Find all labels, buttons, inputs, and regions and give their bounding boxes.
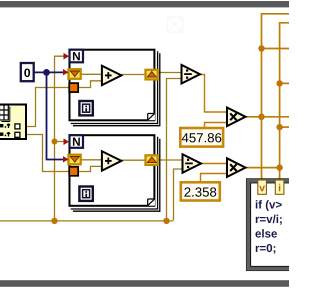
formula node code text <box>255 200 281 254</box>
multiply function U6 <box>227 158 246 177</box>
top window border bar <box>0 1 289 7</box>
wire: net v branch stub to right edge <box>262 48 290 50</box>
add function U2 (loop2) <box>102 151 122 170</box>
wire: divide U4 output to multiply U6 upper input <box>201 163 228 165</box>
for loop 2 frame (stacked pages with folded corner) <box>70 135 160 211</box>
loop1 input tunnel <box>69 83 78 92</box>
coercion dot at SR1 <box>63 69 69 75</box>
junction: blue wire junction at constant 0 branch <box>43 69 50 76</box>
wire: constant 2.358 to multiply U6 lower input <box>201 174 228 183</box>
numeric constant 2.358 <box>181 182 220 200</box>
wire: shift register SR1 output to divide U3 upper input <box>158 72 182 74</box>
junction: net v upper branch <box>258 45 264 51</box>
wire: add U1 output to right shift register SR1b <box>121 74 146 76</box>
wire: SR2 to add U2 upper input <box>81 159 102 161</box>
wire: count rail along bottom (net N) <box>0 220 174 222</box>
wire: rail riser to divide U3 lower input <box>167 79 182 221</box>
wire: SR1 to add U1 upper input <box>81 73 102 75</box>
junction: net i middle branch <box>276 124 282 130</box>
shift register SR1 (left, loop1) <box>69 69 81 79</box>
subVI icon (data source, cut off at left edge) <box>0 105 26 140</box>
numeric constant 457.86 <box>180 128 223 147</box>
multiply function U5 <box>227 108 246 127</box>
wire: net v riser with top branch to right edge <box>262 14 290 117</box>
coercion dot at loop2 N <box>64 138 70 145</box>
wire: rail riser to N terminals of both loops <box>55 56 65 221</box>
wire: constant 0 to shift register SR1 (integer, blue) <box>34 71 69 73</box>
junction: net i upper branch <box>276 80 282 86</box>
bottom window border bar <box>0 280 289 287</box>
junction: net v at multiply U5 output <box>258 114 264 120</box>
shift register SR1b (right, loop1) <box>146 70 158 80</box>
wire: multiply U6 output (net i) <box>245 167 279 169</box>
loop2 count terminal N <box>70 135 84 148</box>
coercion dot at SR2 <box>63 156 69 162</box>
wire: rail riser to divide U4 lower input <box>174 169 183 220</box>
for loop 1 frame (stacked pages with folded corner) <box>70 50 160 126</box>
wire: loop1 tunnel to add U1 lower input <box>78 81 102 88</box>
add function U1 (loop1) <box>102 66 122 85</box>
loop2 input tunnel <box>69 167 78 176</box>
junction: count rail to N riser <box>52 139 58 145</box>
wire: branch to loop2 N terminal <box>55 141 65 143</box>
wire: subVI output 2 to loop2 tunnel <box>26 135 70 172</box>
formula node input terminal i <box>275 180 284 194</box>
loop2 iteration terminal i <box>79 187 92 201</box>
junction: rail at divide riser base <box>163 218 169 224</box>
numeric constant 0 <box>21 63 34 81</box>
formula node (cut off at right edge) <box>247 179 296 271</box>
wire: divide U3 output to multiply U5 upper input <box>200 75 228 113</box>
wire: multiply U5 output (net v) to right edge <box>246 116 289 118</box>
wire: net i drop to formula node terminal i <box>279 168 281 182</box>
wire: loop2 tunnel to add U2 lower input <box>78 166 102 171</box>
wire: net i riser with top branch to right edge <box>280 23 289 168</box>
shift register SR2b (right, loop2) <box>146 155 158 165</box>
faint ghost mark <box>168 17 183 32</box>
junction: net i at multiply U6 output <box>276 164 282 170</box>
shift register SR2 (left, loop2) <box>69 155 81 165</box>
wire: constant 457.86 to multiply U5 lower input <box>205 123 228 129</box>
coercion dot at loop1 N <box>64 53 70 60</box>
divide function U4 <box>183 154 202 173</box>
wire: net i branch stub to right edge <box>280 82 289 84</box>
wire: net i branch stub 2 to right edge <box>280 126 289 128</box>
divide function U3 <box>182 65 201 84</box>
formula node input terminal v <box>258 180 267 194</box>
junction: rail at N riser base <box>51 218 57 224</box>
wire: branch of constant 0 down to shift register SR2 <box>47 72 69 159</box>
wire: add U2 output to right shift register SR2b <box>121 159 146 161</box>
wire: shift register SR2 output to divide U4 upper input <box>158 159 183 161</box>
wire: net v drop to formula node terminal v <box>261 117 263 182</box>
loop1 iteration terminal i <box>79 101 92 115</box>
loop1 count terminal N <box>70 50 84 63</box>
wire: subVI output 1 to loop1 tunnel <box>26 88 70 127</box>
